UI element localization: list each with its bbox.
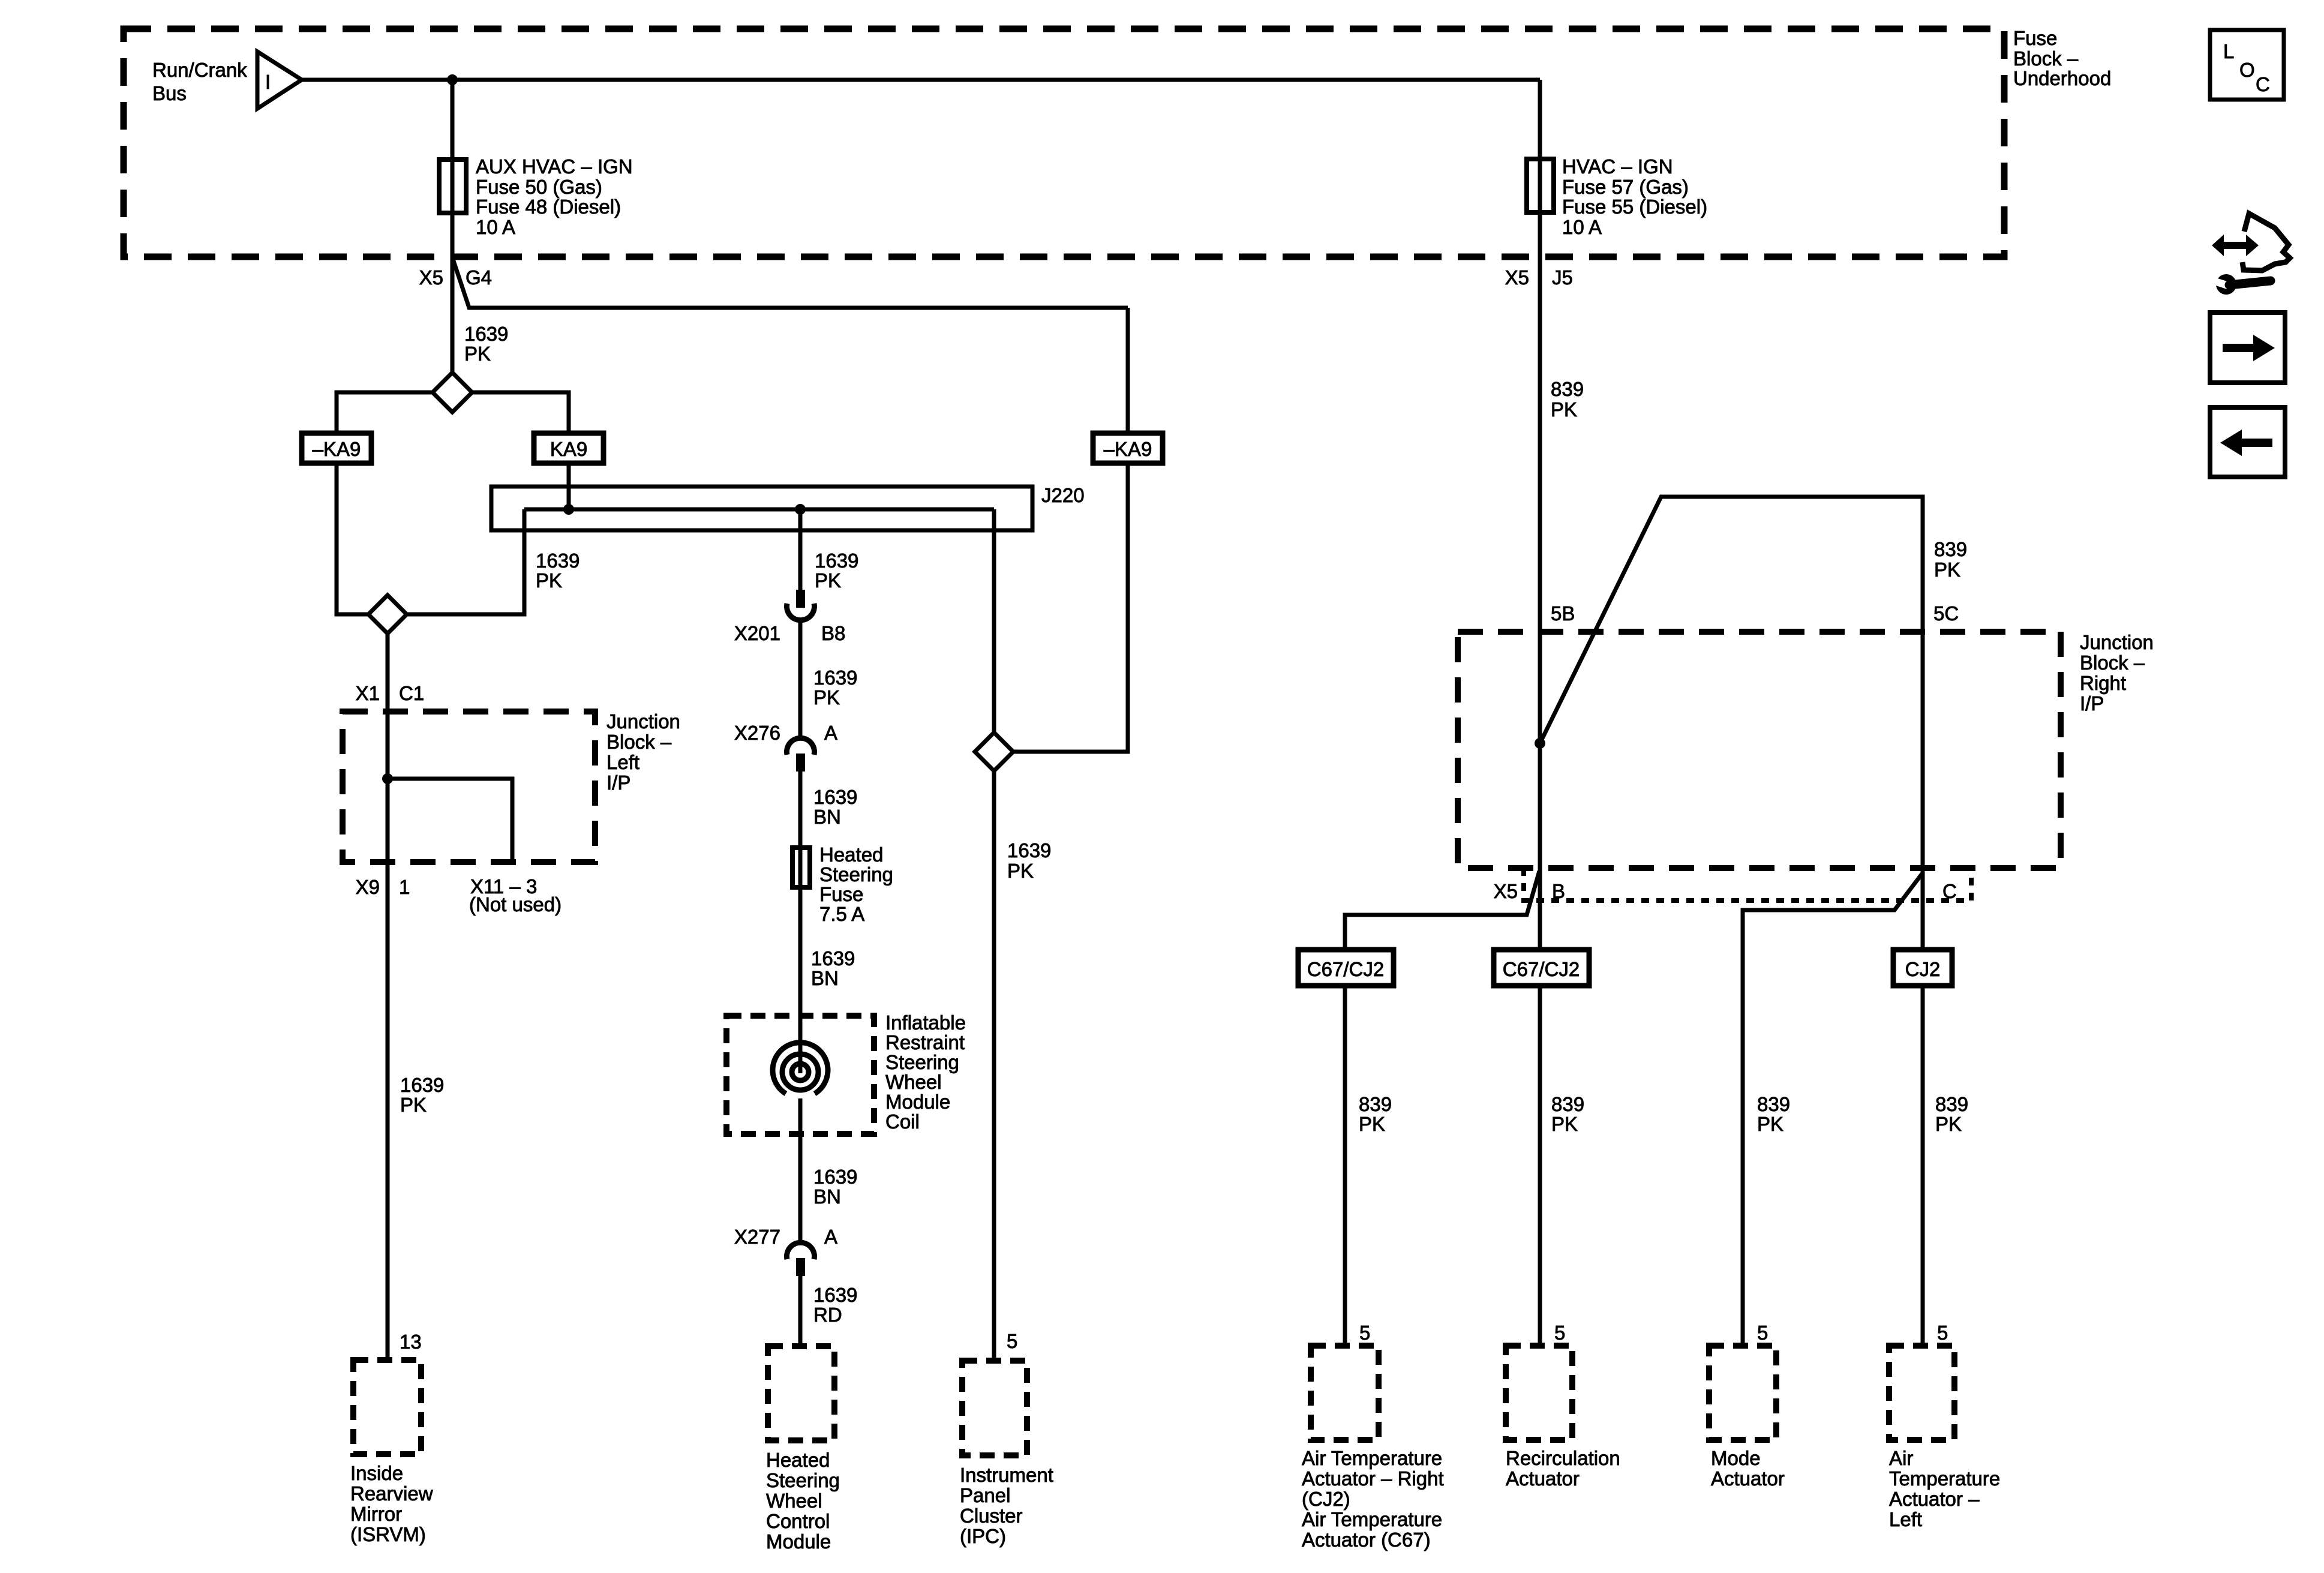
svg-text:Junction: Junction	[2080, 631, 2154, 653]
component box Air Temperature Actuator Right	[1311, 1346, 1379, 1440]
splice pack J220 internal bus	[524, 508, 994, 512]
connector X201 female arc	[787, 604, 815, 620]
svg-text:Restraint: Restraint	[885, 1031, 965, 1053]
wire heated steering fuse to coil	[798, 887, 803, 1073]
fuse Heated Steering 7.5A	[792, 848, 810, 887]
wire fuse 50 output down to connector X5 pin G4	[451, 213, 455, 373]
pin label X5 B	[1494, 880, 1565, 902]
wire bus tap down to fuse 57	[1538, 80, 1542, 159]
pin label X1 C1	[356, 682, 425, 704]
label Air Temperature Actuator - Right (CJ2) / (C67)	[1302, 1447, 1444, 1551]
splice diamond S1	[433, 373, 472, 412]
label AUX HVAC - IGN fuse value	[476, 155, 633, 238]
svg-text:Wheel: Wheel	[766, 1490, 822, 1512]
svg-text:PK: PK	[400, 1094, 427, 1116]
svg-text:1639: 1639	[536, 550, 580, 572]
svg-text:Actuator: Actuator	[1506, 1467, 1580, 1490]
wire label 1639 PK below X201	[813, 667, 857, 709]
svg-text:Actuator (C67): Actuator (C67)	[1302, 1529, 1431, 1551]
svg-text:(Not used): (Not used)	[469, 893, 562, 915]
label Instrument Panel Cluster (IPC)	[960, 1464, 1053, 1547]
svg-text:5: 5	[1757, 1322, 1768, 1344]
svg-text:Mirror: Mirror	[350, 1503, 402, 1525]
svg-text:Fuse 48 (Diesel): Fuse 48 (Diesel)	[476, 196, 621, 218]
junction block left IP dashed enclosure	[343, 712, 595, 862]
svg-text:Block –: Block –	[2013, 47, 2079, 70]
svg-text:Air Temperature: Air Temperature	[1302, 1447, 1442, 1469]
wire branch down to relay -KA9 right	[1126, 308, 1130, 433]
component box Instrument Panel Cluster IPC	[962, 1361, 1027, 1455]
wire C67/CJ2 left down to air temp actuator right	[1343, 986, 1347, 1346]
svg-text:X1: X1	[356, 682, 380, 704]
svg-text:Wheel: Wheel	[885, 1071, 942, 1093]
wire splice S3 down to IPC	[992, 771, 996, 1361]
fuse F57/F55 HVAC - IGN 10A	[1527, 159, 1554, 212]
svg-text:Block –: Block –	[2080, 652, 2145, 674]
svg-text:X201: X201	[734, 622, 780, 644]
svg-text:Module: Module	[766, 1530, 831, 1553]
svg-text:Right: Right	[2080, 672, 2126, 694]
svg-text:5B: 5B	[1551, 602, 1575, 625]
wire label 839 PK upper	[1551, 378, 1584, 421]
component box Mode Actuator	[1709, 1346, 1776, 1440]
svg-text:B8: B8	[821, 622, 845, 644]
option box KA9	[534, 433, 603, 463]
pin label X9 1	[356, 876, 410, 898]
connector X277 female arc	[787, 1242, 815, 1259]
svg-text:Underhood: Underhood	[2013, 67, 2111, 89]
svg-text:Heated: Heated	[819, 843, 883, 866]
svg-text:Actuator – Right: Actuator – Right	[1302, 1467, 1444, 1490]
svg-text:C: C	[1942, 880, 1957, 902]
svg-text:Fuse 55 (Diesel): Fuse 55 (Diesel)	[1562, 196, 1707, 218]
connector X201 male pin	[796, 590, 805, 608]
svg-text:Panel: Panel	[960, 1484, 1010, 1506]
svg-text:X5: X5	[1505, 266, 1529, 289]
svg-text:KA9: KA9	[550, 438, 587, 460]
svg-text:PK: PK	[1934, 559, 1960, 581]
wire 839 PK slant up to terminal 5C run	[1540, 497, 1923, 950]
svg-text:AUX HVAC – IGN: AUX HVAC – IGN	[476, 155, 633, 178]
wire splice right branch to KA9	[472, 392, 569, 433]
connector box C67/CJ2 center	[1494, 950, 1589, 986]
svg-text:7.5 A: 7.5 A	[819, 903, 864, 925]
label Mode Actuator	[1711, 1447, 1785, 1490]
label Junction Block - Right I/P	[2080, 631, 2154, 715]
nav icon left arrow box	[2210, 407, 2285, 477]
junction dot at fuse 50 tap	[447, 74, 458, 85]
pin label X11 - 3 (Not used)	[469, 875, 562, 915]
label Fuse Block - Underhood	[2013, 27, 2111, 89]
wire splice left branch to -KA9	[337, 392, 433, 433]
wire label 1639 PK above X201	[815, 550, 858, 592]
svg-text:C: C	[2256, 73, 2270, 95]
wire bus tap down to fuse 50	[451, 80, 455, 160]
svg-text:Left: Left	[1889, 1508, 1922, 1530]
pin label X5 G4	[419, 266, 492, 289]
svg-text:Control: Control	[766, 1510, 830, 1532]
svg-text:13: 13	[400, 1331, 422, 1353]
wire terminal B slash branch	[1345, 871, 1539, 950]
wire splice S2 right to J220	[407, 509, 524, 614]
wire branch G4 slant	[453, 259, 1128, 308]
svg-text:Recirculation: Recirculation	[1506, 1447, 1620, 1469]
svg-text:A: A	[824, 1226, 837, 1248]
component box Inside Rearview Mirror ISRVM	[353, 1360, 421, 1454]
junction dot 839 PK tap	[1535, 738, 1545, 749]
label Recirculation Actuator	[1506, 1447, 1620, 1490]
svg-text:PK: PK	[1551, 1113, 1578, 1135]
svg-text:X277: X277	[734, 1226, 780, 1248]
svg-text:5C: 5C	[1933, 602, 1959, 625]
svg-text:Air: Air	[1889, 1447, 1913, 1469]
svg-text:Inside: Inside	[350, 1462, 403, 1484]
svg-text:O: O	[2239, 59, 2255, 81]
wire run/crank bus horizontal	[302, 78, 1540, 82]
svg-text:X5: X5	[419, 266, 443, 289]
svg-text:J220: J220	[1041, 484, 1085, 506]
wire label 1639 BN upper	[813, 786, 857, 828]
svg-text:5: 5	[1554, 1322, 1565, 1344]
wire label 1639 BN middle	[811, 947, 855, 989]
svg-text:PK: PK	[815, 569, 841, 592]
svg-text:I/P: I/P	[606, 772, 630, 794]
svg-text:1639: 1639	[400, 1074, 444, 1096]
svg-text:Instrument: Instrument	[960, 1464, 1053, 1486]
svg-text:10 A: 10 A	[1562, 216, 1602, 238]
svg-text:Mode: Mode	[1711, 1447, 1761, 1469]
svg-text:1639: 1639	[464, 323, 508, 345]
pin label X277 A	[734, 1226, 837, 1248]
svg-text:PK: PK	[1757, 1113, 1783, 1135]
svg-text:Steering: Steering	[885, 1051, 959, 1073]
svg-text:839: 839	[1359, 1093, 1392, 1115]
svg-text:1639: 1639	[813, 667, 857, 689]
svg-text:B: B	[1552, 880, 1565, 902]
svg-text:PK: PK	[813, 686, 840, 709]
wire label 839 PK col2	[1551, 1093, 1584, 1135]
wire label 1639 PK to ISRVM	[400, 1074, 444, 1116]
label Inside Rearview Mirror (ISRVM)	[350, 1462, 433, 1545]
svg-text:Junction: Junction	[606, 710, 680, 733]
svg-text:Actuator –: Actuator –	[1889, 1488, 1980, 1510]
wire J220 right end down to splice S3	[992, 509, 996, 733]
splice pack J220 outer bar	[491, 487, 1032, 530]
svg-text:C67/CJ2: C67/CJ2	[1503, 958, 1580, 980]
connector X276 female arc	[787, 738, 815, 755]
svg-text:839: 839	[1551, 1093, 1584, 1115]
nav icon right arrow box	[2210, 313, 2285, 383]
wire splice S2 down to ISRVM	[386, 634, 390, 1360]
label Air Temperature Actuator - Left	[1889, 1447, 2000, 1530]
svg-text:CJ2: CJ2	[1905, 958, 1941, 980]
svg-text:Rearview: Rearview	[350, 1482, 433, 1505]
wire label 1639 BN lower	[813, 1166, 857, 1208]
wire from -KA9 right down to splice	[1014, 463, 1128, 752]
coil spiral	[773, 1043, 828, 1094]
svg-text:Bus: Bus	[152, 82, 187, 104]
svg-text:Actuator: Actuator	[1711, 1467, 1785, 1490]
wire label 1639 PK to IPC	[1007, 839, 1051, 882]
svg-text:BN: BN	[813, 806, 841, 828]
svg-text:–KA9: –KA9	[1104, 438, 1152, 460]
svg-text:1639: 1639	[813, 786, 857, 808]
connector X277 male pin	[796, 1258, 805, 1276]
LOC icon box	[2210, 30, 2284, 100]
wire terminal C slash branch to mode actuator	[1743, 873, 1923, 1346]
wire -KA9 left down to splice S2	[337, 463, 368, 614]
svg-text:Steering: Steering	[819, 863, 893, 885]
wire label 839 PK col3	[1757, 1093, 1790, 1135]
junction dot KA9 at J220	[563, 504, 574, 515]
svg-text:839: 839	[1935, 1093, 1968, 1115]
svg-text:Air Temperature: Air Temperature	[1302, 1508, 1442, 1530]
svg-text:1639: 1639	[1007, 839, 1051, 861]
svg-text:BN: BN	[811, 967, 839, 989]
svg-text:Fuse 50 (Gas): Fuse 50 (Gas)	[476, 176, 602, 198]
fuse F50/F48 AUX HVAC - IGN 10A	[439, 160, 466, 213]
label Junction Block - Left I/P	[606, 710, 680, 794]
svg-text:C67/CJ2: C67/CJ2	[1307, 958, 1384, 980]
connector box C67/CJ2 left	[1298, 950, 1394, 986]
pin label X276 A	[734, 722, 837, 744]
svg-text:(ISRVM): (ISRVM)	[350, 1523, 426, 1545]
splice diamond S3	[975, 733, 1013, 771]
svg-text:Inflatable: Inflatable	[885, 1011, 966, 1034]
svg-text:839: 839	[1934, 538, 1967, 560]
component box Recirculation Actuator	[1506, 1346, 1572, 1440]
svg-text:839: 839	[1551, 378, 1584, 400]
svg-text:–KA9: –KA9	[313, 438, 361, 460]
svg-text:Run/Crank: Run/Crank	[152, 59, 247, 81]
fuse block underhood dashed enclosure	[124, 29, 2004, 257]
svg-text:Temperature: Temperature	[1889, 1467, 2000, 1490]
svg-text:10 A: 10 A	[476, 216, 515, 238]
component box Air Temperature Actuator Left	[1889, 1346, 1954, 1440]
svg-text:C1: C1	[399, 682, 424, 704]
vehicle service icon: double arrow	[2212, 235, 2259, 256]
svg-text:5: 5	[1359, 1322, 1370, 1344]
svg-text:Cluster: Cluster	[960, 1505, 1023, 1527]
wire label 839 PK col1	[1359, 1093, 1392, 1135]
svg-text:RD: RD	[813, 1304, 842, 1326]
label Inflatable Restraint Steering Wheel Module Coil	[885, 1011, 966, 1133]
junction block right IP dashed enclosure	[1458, 632, 2061, 868]
connector box CJ2 right	[1893, 950, 1952, 986]
svg-text:X276: X276	[734, 722, 780, 744]
svg-text:Fuse 57 (Gas): Fuse 57 (Gas)	[1562, 176, 1689, 198]
svg-text:Left: Left	[606, 751, 639, 773]
connector X276 male pin	[796, 754, 805, 772]
svg-text:1639: 1639	[811, 947, 855, 969]
component box Heated Steering Wheel Control Module	[768, 1346, 834, 1440]
wire C67/CJ2 center down to recirculation actuator	[1538, 986, 1542, 1346]
option box -KA9 (right)	[1093, 433, 1163, 463]
svg-text:PK: PK	[1935, 1113, 1962, 1135]
svg-text:I/P: I/P	[2080, 692, 2104, 715]
svg-text:Coil: Coil	[885, 1110, 920, 1133]
svg-text:X9: X9	[356, 876, 380, 898]
wire X201 to X276	[798, 622, 803, 739]
label Heated Steering Wheel Control Module	[766, 1449, 840, 1553]
svg-text:1639: 1639	[815, 550, 858, 572]
svg-text:1639: 1639	[813, 1284, 857, 1306]
wire X276 to heated steering fuse	[798, 772, 803, 848]
wire J220 down to X201	[798, 509, 803, 591]
svg-text:839: 839	[1757, 1093, 1790, 1115]
svg-text:Block –: Block –	[606, 731, 672, 753]
svg-text:I: I	[265, 71, 271, 93]
svg-text:BN: BN	[813, 1185, 841, 1208]
vehicle service icon: car outline	[2242, 214, 2290, 271]
wire label 839 PK right top	[1934, 538, 1967, 581]
svg-text:PK: PK	[1551, 398, 1577, 421]
svg-text:PK: PK	[1359, 1113, 1385, 1135]
wire label 839 PK col4	[1935, 1093, 1968, 1135]
svg-text:Fuse: Fuse	[819, 883, 863, 905]
pin label X201 B8	[734, 622, 845, 644]
svg-text:G4: G4	[466, 266, 492, 289]
svg-text:Module: Module	[885, 1091, 950, 1113]
wire label 1639 PK below fuse 50	[464, 323, 508, 365]
label HVAC - IGN fuse value	[1562, 155, 1707, 238]
junction dot X201 feed at J220	[795, 504, 806, 515]
svg-text:HVAC – IGN: HVAC – IGN	[1562, 155, 1673, 178]
wire CJ2 down to air temp actuator left	[1921, 986, 1925, 1346]
svg-text:Fuse: Fuse	[2013, 27, 2057, 49]
component box Inflatable Restraint Steering Wheel Module Coil	[726, 1016, 874, 1134]
svg-text:PK: PK	[464, 343, 491, 365]
svg-text:Heated: Heated	[766, 1449, 830, 1471]
wire label 1639 PK left of J220	[536, 550, 580, 592]
svg-text:A: A	[824, 722, 837, 744]
svg-text:(CJ2): (CJ2)	[1302, 1488, 1350, 1510]
splice diamond S2	[368, 595, 407, 634]
wire stub to X11-3	[388, 779, 512, 862]
svg-text:X5: X5	[1494, 880, 1518, 902]
wire KA9 down into J220	[567, 463, 571, 509]
svg-text:(IPC): (IPC)	[960, 1525, 1006, 1547]
wire label 1639 RD	[813, 1284, 857, 1326]
wire coil to X277	[798, 1098, 803, 1243]
svg-text:1: 1	[399, 876, 410, 898]
svg-text:1639: 1639	[813, 1166, 857, 1188]
pin label X5 J5	[1505, 266, 1573, 289]
svg-text:PK: PK	[536, 569, 562, 592]
svg-text:PK: PK	[1007, 860, 1034, 882]
svg-text:Steering: Steering	[766, 1469, 840, 1491]
option box -KA9 (left)	[302, 433, 371, 463]
connector X5 dotted outline	[1524, 868, 1971, 900]
label Heated Steering Fuse 7.5 A	[819, 843, 893, 925]
vehicle service icon: wrench	[2212, 274, 2271, 295]
label Run/Crank Bus	[152, 59, 247, 104]
node I: run/crank bus source triangle	[257, 52, 302, 109]
wire fuse 57 output down through X5 J5	[1538, 212, 1542, 950]
wire X277 to module	[798, 1276, 803, 1346]
svg-text:5: 5	[1007, 1330, 1017, 1352]
junction dot in left junction block	[382, 773, 393, 784]
svg-text:5: 5	[1937, 1322, 1948, 1344]
svg-text:J5: J5	[1552, 266, 1573, 289]
svg-text:L: L	[2223, 40, 2234, 62]
